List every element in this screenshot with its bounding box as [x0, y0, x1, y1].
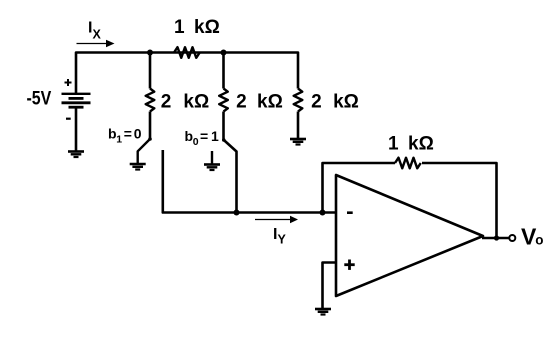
- svg-text:kΩ: kΩ: [257, 92, 283, 113]
- label Vo output: [521, 224, 544, 250]
- node junction top rail at middle 2k branch: [221, 50, 227, 56]
- node junction bus at feedback branch: [320, 210, 326, 216]
- wire switch b1 open throw down to summing bus: [162, 150, 165, 211]
- svg-text:b: b: [108, 126, 117, 142]
- label b1 = 0: [108, 126, 142, 146]
- label b0 = 1: [185, 128, 220, 148]
- svg-text:0: 0: [193, 136, 199, 148]
- resistor R4 2kOhm vertical right: [294, 89, 303, 112]
- label 1 kOhm feedback resistor value: [388, 134, 434, 155]
- resistor R2 2kOhm vertical left: [146, 89, 155, 112]
- label -5V battery value: [27, 87, 52, 109]
- wire middle 2k lower vertical to switch b0: [222, 112, 225, 141]
- svg-text:2: 2: [161, 92, 172, 113]
- label 2 kOhm right resistor value: [311, 92, 359, 113]
- svg-text:1: 1: [211, 128, 219, 144]
- svg-text:=: =: [124, 126, 132, 142]
- wire right 2k lower vertical to ground: [297, 112, 300, 139]
- svg-text:=: =: [200, 128, 208, 144]
- svg-text:kΩ: kΩ: [408, 134, 434, 155]
- label 2 kOhm middle resistor value: [236, 92, 283, 113]
- ground switch b0 open contact: [204, 165, 220, 171]
- switch b0 arm to summing bus: [222, 138, 237, 212]
- arrow IY current direction: [255, 216, 298, 223]
- svg-text:2: 2: [311, 92, 322, 113]
- svg-text:X: X: [93, 28, 102, 42]
- node junction top rail at left 2k branch: [147, 50, 153, 56]
- svg-text:1: 1: [174, 17, 185, 38]
- svg-text:0: 0: [134, 126, 142, 142]
- node junction bus at switch b0: [234, 210, 240, 216]
- wire left 2k lower vertical to switch b1: [149, 112, 152, 140]
- wire feedback branch up and across to output: [323, 163, 497, 238]
- svg-text:kΩ: kΩ: [183, 92, 209, 113]
- label battery minus sign: [66, 118, 71, 120]
- svg-text:1: 1: [388, 134, 399, 155]
- svg-text:o: o: [535, 233, 543, 248]
- node junction output at feedback: [494, 235, 499, 240]
- svg-text:-5V: -5V: [27, 87, 52, 109]
- label IX: [88, 20, 102, 42]
- battery V1 -5V plates: [62, 94, 91, 107]
- wire battery bottom vertical: [75, 107, 78, 150]
- label 1 kOhm top resistor value: [174, 17, 220, 38]
- wire middle 2k branch upper vertical: [222, 53, 225, 89]
- op-amp U1 triangle: [336, 175, 483, 296]
- svg-text:kΩ: kΩ: [194, 17, 220, 38]
- label IY: [273, 226, 287, 247]
- resistor R3 2kOhm vertical middle: [219, 89, 228, 112]
- label op-amp inverting input minus: [347, 211, 353, 214]
- arrow IX current direction: [77, 40, 115, 47]
- resistor R1 1kOhm horizontal: [174, 47, 200, 58]
- resistor R5 1kOhm feedback: [395, 158, 421, 169]
- svg-text:1: 1: [116, 134, 122, 146]
- label battery plus sign: [65, 79, 72, 86]
- node output terminal circle: [509, 235, 515, 241]
- switch b1 arm to ground: [138, 137, 152, 163]
- wire left 2k branch upper vertical: [149, 53, 152, 89]
- ground op-amp noninverting input: [315, 309, 331, 315]
- label op-amp noninverting input plus: [344, 260, 354, 270]
- svg-text:b: b: [185, 128, 194, 144]
- ground R4: [290, 139, 306, 145]
- svg-text:2: 2: [236, 92, 247, 113]
- label 2 kOhm left resistor value: [161, 92, 209, 113]
- wire noninverting input stub to ground: [323, 263, 337, 309]
- wire op-amp output: [482, 237, 509, 240]
- wire top rail from battery to right branch: [76, 53, 298, 94]
- ground battery: [68, 152, 84, 158]
- svg-text:kΩ: kΩ: [333, 92, 359, 113]
- svg-text:Y: Y: [278, 233, 287, 247]
- wire switch b0 open throw ground stub: [211, 151, 213, 164]
- ground switch b1: [130, 164, 146, 170]
- wire summing bus horizontal to op-amp inverting input: [163, 211, 336, 213]
